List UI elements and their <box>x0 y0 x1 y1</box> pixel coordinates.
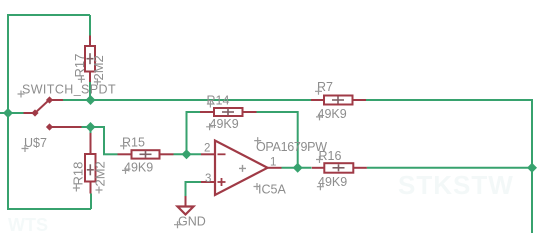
svg-text:49K9: 49K9 <box>318 107 347 121</box>
origin cross SWITCH_SPDT <box>18 91 25 98</box>
wire feedback vertical left (186.5,112)-(186.5,154.3) <box>186 112 188 154</box>
svg-text:R18: R18 <box>71 162 86 186</box>
resistor R7 <box>311 96 366 105</box>
junction node output <box>293 163 303 173</box>
origin cross IC5A label <box>254 183 261 190</box>
resistor R16 <box>312 163 367 173</box>
svg-text:SWITCH_SPDT: SWITCH_SPDT <box>22 83 116 97</box>
origin cross OPA1679PW <box>254 137 261 144</box>
wire R15 to opamp pin2 (173.5,154.3)-(201,154.3) <box>174 153 202 155</box>
wire R18 top green stub (90.5,127)-(90.5,133) <box>90 127 92 133</box>
wire R17 bottom lead green (90,82)-(90,100) <box>89 82 91 100</box>
resistor R17 <box>85 36 95 83</box>
origin cross R7 value <box>316 113 323 120</box>
ground symbol GND <box>178 196 194 215</box>
wire right vertical (532,100)-(532,233) <box>531 99 533 233</box>
origin cross R17 value <box>94 78 101 85</box>
resistor R15 <box>118 150 174 158</box>
wire top horizontal (8,15)-(90,15) <box>8 14 90 16</box>
plus sign non-inverting input <box>218 178 226 186</box>
pin throw2 stub <box>50 126 82 128</box>
wire net SWITCH_SPDT long horizontal (63,100)-(532,100) <box>63 99 532 101</box>
origin cross U$7 <box>22 145 29 152</box>
svg-text:2M2: 2M2 <box>91 55 106 80</box>
svg-text:R17: R17 <box>72 54 87 78</box>
origin cross R15 value <box>122 167 129 174</box>
svg-text:1: 1 <box>270 157 276 169</box>
wire throw2 vertical (104,127)-(104,154.3) <box>103 126 105 154</box>
pin 3 stub <box>201 181 215 183</box>
origin cross R17 name <box>78 76 85 83</box>
pin 2 stub <box>201 153 215 155</box>
resistor R14 <box>200 108 257 116</box>
origin cross R7 name <box>315 88 322 95</box>
origin cross R14 name <box>207 101 214 108</box>
wire switch pole (0,113)-(23.5,113) <box>0 112 24 114</box>
switch contact throw1 <box>46 96 53 103</box>
origin cross GND <box>174 221 181 228</box>
switch contact pole <box>31 109 38 116</box>
svg-text:R15: R15 <box>122 136 145 150</box>
origin cross R18 name <box>73 185 80 192</box>
wire feedback to R14 (186.5,112)-(200,112) <box>186 111 201 113</box>
origin cross IC5A part <box>239 165 246 172</box>
origin cross R16 value <box>317 183 324 190</box>
wire bottom horizontal (8,209)-(91,209) <box>7 208 91 210</box>
svg-text:WTS: WTS <box>8 215 48 233</box>
svg-text:3: 3 <box>205 173 211 185</box>
origin cross R16 name <box>316 156 323 163</box>
svg-text:49K9: 49K9 <box>124 161 153 175</box>
wire gnd horizontal (185.5,182)-(201,182) <box>186 181 202 183</box>
junction node R17/throw1 <box>86 95 96 105</box>
junction node R18/throw2 <box>86 122 96 132</box>
wire R16 right green (366.9,167.8)-(532,167.8) <box>367 167 532 169</box>
origin cross R14 value <box>206 123 213 130</box>
minus sign inverting input <box>218 153 226 155</box>
junction node right feedback <box>527 163 537 173</box>
switch contact throw2 <box>46 123 53 130</box>
wire feedback vertical right (297.7,112)-(297.7,167.8) <box>297 111 299 168</box>
wire R17 top lead green (90,15)-(90,35.5) <box>89 15 91 36</box>
wire R18 bottom riser (91,209)-(91,193.5) <box>90 194 92 210</box>
wire throw2 green stub (81.5,127)-(104,127) <box>82 126 105 128</box>
pin throw1 stub <box>50 99 64 101</box>
origin cross R18 value <box>96 187 103 194</box>
op-amp IC5A <box>201 141 282 196</box>
pin pole stub <box>24 112 36 114</box>
svg-text:STKSTW: STKSTW <box>398 170 514 200</box>
origin cross R15 name <box>120 142 127 149</box>
wire left vertical (8,15)-(8,209) <box>7 14 9 209</box>
svg-text:IC5A: IC5A <box>258 183 286 197</box>
svg-text:2: 2 <box>204 143 210 155</box>
switch U$7 <box>24 100 82 127</box>
switch arm <box>35 101 49 114</box>
junction node switch pole <box>3 108 13 118</box>
op-amp triangle <box>215 141 268 196</box>
svg-text:GND: GND <box>178 215 206 229</box>
svg-text:2M2: 2M2 <box>93 161 108 186</box>
wire gnd vertical (185.5,182)-(185.5,196) <box>185 181 187 196</box>
wire to R15 (104,154.3)-(117.5,154.3) <box>103 153 118 155</box>
svg-text:49K9: 49K9 <box>210 117 239 131</box>
svg-text:OPA1679PW: OPA1679PW <box>256 140 327 154</box>
junction node inverting input <box>182 149 192 159</box>
wire R14 right green (256.5,112)-(297.7,112) <box>257 111 298 113</box>
pin 1 stub <box>268 167 282 169</box>
wire output green (281.5,167.8)-(311.5,167.8) <box>282 167 312 169</box>
resistor R18 <box>85 133 96 194</box>
